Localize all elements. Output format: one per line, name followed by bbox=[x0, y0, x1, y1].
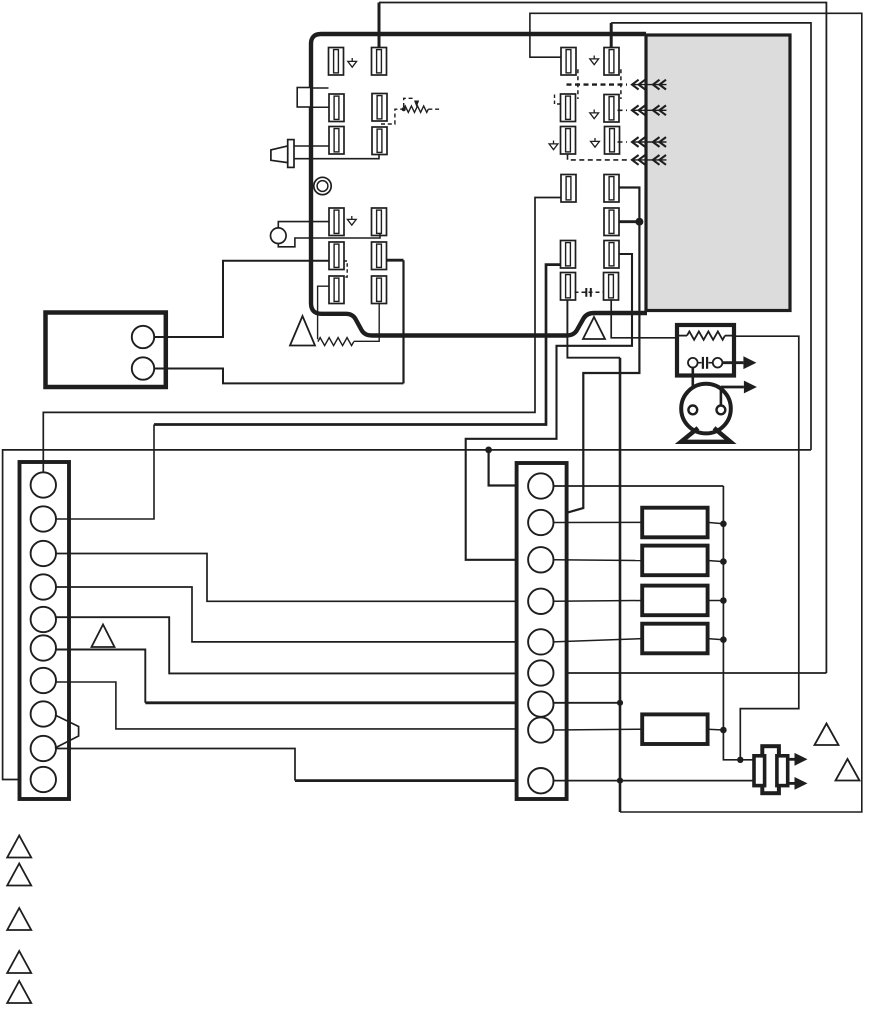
wire TB2 to relay K2 bbox=[553, 559, 642, 562]
wire riser x403 bbox=[402, 260, 404, 383]
terminal MR-R1C1 bbox=[561, 175, 576, 203]
wire to ML-R2C2 bbox=[386, 259, 404, 262]
wire relay K1 to bus bbox=[708, 522, 724, 523]
TB2 screw 9 bbox=[528, 768, 553, 793]
wire TB2 to relay K3 bbox=[553, 600, 642, 603]
TB2 screw 2 bbox=[528, 510, 553, 535]
wire relay K3 to bus bbox=[708, 600, 724, 602]
switch contact right bbox=[713, 358, 723, 368]
element lead right bbox=[725, 335, 734, 337]
motor base bbox=[681, 428, 731, 442]
resistor R-ML bbox=[318, 338, 354, 346]
wire motor terminal up bbox=[720, 387, 723, 406]
polarity mark 6 bbox=[591, 138, 600, 147]
wire bus to TB2-6 bbox=[553, 672, 826, 674]
TB2 screw 6 bbox=[528, 660, 553, 685]
pot junction bbox=[402, 107, 406, 111]
arrow plug lower bbox=[788, 777, 808, 790]
wire relay K5 to bus bbox=[708, 728, 724, 731]
junction relay bus bbox=[720, 521, 727, 528]
dashed link HSI row4 bbox=[568, 155, 628, 160]
wire T2-top to bus bbox=[378, 3, 381, 48]
thermostat terminal W bbox=[132, 357, 154, 379]
chevrons row 4 bbox=[632, 155, 667, 165]
TB2 screw 1 bbox=[528, 473, 553, 498]
wire top bus y2.5 bbox=[379, 3, 826, 674]
wire relay K2 to bus bbox=[708, 561, 724, 562]
wire heater input bbox=[611, 301, 677, 338]
terminal ML-R1C2 bbox=[372, 208, 387, 236]
dashed link HSI row3 bbox=[618, 141, 628, 143]
terminal MR-R1C2 bbox=[604, 175, 619, 203]
TB1 screw 3 bbox=[31, 541, 56, 566]
junction bus y450 bbox=[485, 447, 492, 454]
wire TB2 to relay K1 bbox=[553, 521, 642, 523]
wire thermostat R bbox=[154, 261, 329, 337]
wire TB1-7 to TB2-8 bbox=[56, 682, 529, 729]
motor terminal right bbox=[717, 406, 726, 415]
terminal TR-R1C2 bbox=[604, 48, 619, 76]
wire MR-R2C2 link bbox=[618, 220, 640, 223]
terminal ML-R2C1 bbox=[329, 242, 344, 270]
wire resistor right bbox=[354, 303, 379, 342]
wire y13 net bbox=[530, 13, 862, 812]
terminal TL-R1C2 bbox=[372, 48, 387, 76]
capacitor bar 1 bbox=[585, 288, 587, 297]
switch contact left bbox=[688, 358, 698, 368]
wire switch to motor bbox=[691, 368, 694, 406]
arrow switch output bbox=[722, 356, 756, 369]
terminal TR-R2C1 bbox=[561, 94, 576, 122]
wire TB1-9 net bbox=[56, 749, 295, 781]
junction x620 TB2-9 bbox=[617, 778, 623, 784]
pot element bbox=[404, 106, 429, 112]
wire TB1-1 net bbox=[43, 198, 561, 473]
terminal TR-R2C2 bbox=[604, 95, 619, 123]
capacitor bar 2 bbox=[590, 288, 592, 297]
wire TB1-6 thick bbox=[145, 701, 528, 704]
pot dashed lead bbox=[381, 109, 402, 124]
junction x620 TB2-7 bbox=[617, 700, 623, 706]
wire x620 to terminal bbox=[567, 301, 620, 358]
TB1 screw 8 bbox=[31, 701, 56, 726]
relay K5 bbox=[642, 714, 707, 744]
junction relay bus bbox=[720, 558, 727, 565]
wire TB1-9 thick bbox=[295, 779, 528, 782]
terminal TR-R3C1 bbox=[561, 127, 576, 155]
TB1 screw 10 bbox=[31, 767, 56, 792]
warning triangle 8 bbox=[836, 759, 860, 781]
polarity mark 4 bbox=[590, 110, 599, 119]
terminal MR-R2C2 bbox=[604, 208, 619, 236]
wire stub T-top x611 bbox=[610, 23, 613, 48]
terminal MR-R4C2 bbox=[604, 273, 619, 301]
thermostat terminal R bbox=[132, 326, 154, 348]
wire tab top bbox=[311, 87, 329, 89]
dashed step row2L bbox=[555, 95, 561, 105]
control board outline bbox=[311, 34, 647, 336]
wire tab to R2C1 bbox=[311, 106, 329, 108]
wire TB1-6 to TB2-7 bbox=[56, 650, 146, 703]
mounting hole bbox=[314, 177, 331, 194]
dashed bracket ML bbox=[344, 261, 348, 277]
wire heater output bbox=[734, 336, 799, 760]
terminal ML-R2C2 bbox=[372, 242, 387, 270]
pot wiper arrow bbox=[415, 101, 419, 106]
arrow plug upper bbox=[788, 753, 808, 766]
wire buzzer 1 bbox=[294, 145, 329, 147]
wire TB1-3 to TB2-4 bbox=[56, 554, 529, 602]
note triangle 2 bbox=[7, 864, 31, 886]
warning triangle 2 bbox=[583, 317, 605, 339]
TB2 screw 7 bbox=[528, 691, 553, 716]
wire TB1-2 thick bbox=[154, 265, 561, 425]
wire y22.9 net bbox=[611, 23, 811, 450]
wire TB2-1 to relay bus bbox=[553, 485, 723, 487]
terminal ML-R1C1 bbox=[329, 208, 344, 236]
TB1 screw 5 bbox=[31, 607, 56, 632]
polarity mark 3 bbox=[590, 56, 599, 65]
warning triangle 6 bbox=[92, 625, 115, 648]
wire relay K4 to bus bbox=[708, 639, 724, 640]
pot dashed wiper bbox=[404, 98, 415, 107]
note triangle 3 bbox=[7, 908, 31, 930]
switch bar 1 bbox=[702, 357, 704, 369]
wire TB2-9 to plug bbox=[553, 780, 753, 782]
buzzer cone bbox=[271, 146, 288, 163]
TB1 screw 7 bbox=[31, 668, 56, 693]
junction relay bus bbox=[720, 727, 727, 734]
igniter/HSI block (shaded) bbox=[646, 35, 790, 311]
polarity mark 5 bbox=[549, 141, 558, 150]
wire TB2 to relay K4 bbox=[553, 639, 642, 642]
terminal TL-R2C2 bbox=[372, 94, 387, 122]
pot dashed out bbox=[428, 108, 440, 110]
chevrons row 3 bbox=[632, 137, 667, 147]
wire thermostat W bbox=[154, 369, 403, 384]
TB1 screw 6 bbox=[31, 635, 56, 660]
terminal TL-R3C1 bbox=[329, 127, 344, 155]
polarity mark 1 bbox=[348, 58, 357, 67]
switch stub right bbox=[708, 362, 712, 364]
TB2 screw 5 bbox=[528, 629, 553, 654]
terminal TL-R2C1 bbox=[329, 94, 344, 122]
note triangle 1 bbox=[7, 836, 31, 858]
dashed link HSI row1 bbox=[567, 83, 628, 85]
terminal strip TB2 bbox=[517, 463, 567, 799]
plug wing right bbox=[777, 756, 788, 786]
wire pad bottom bbox=[278, 234, 380, 247]
heating element R-limit bbox=[687, 331, 725, 339]
jumper TB1 8-9 bbox=[55, 715, 79, 748]
dashed capacitor MR-R4 bbox=[575, 291, 604, 293]
terminal MR-R3C2 bbox=[604, 241, 619, 269]
TB2 screw 4 bbox=[528, 589, 553, 614]
plug body bbox=[762, 746, 779, 793]
wire buzzer 2 bbox=[294, 155, 379, 159]
wire TB2-7 stub bbox=[553, 702, 620, 704]
terminal TR-R3C2 bbox=[605, 127, 620, 155]
switch stub left bbox=[698, 362, 702, 364]
edge tab bbox=[297, 88, 311, 108]
dashed link HSI row2 bbox=[618, 109, 628, 111]
TB1 screw 1 bbox=[31, 472, 56, 497]
wire MR-R3C2 net bbox=[466, 254, 632, 560]
chevrons row 1 bbox=[632, 80, 667, 90]
wire TB1-2 net bbox=[56, 425, 154, 520]
relay bus vertical bbox=[722, 486, 724, 730]
thermostat box bbox=[46, 313, 166, 388]
warning triangle 1 bbox=[290, 316, 315, 346]
wire riser x620 bbox=[619, 358, 622, 812]
TB2 screw 3 bbox=[528, 547, 553, 572]
polarity mark 2 bbox=[347, 216, 356, 225]
element lead left bbox=[677, 335, 687, 337]
wire MR-R1C2 net bbox=[552, 188, 639, 518]
relay K3 bbox=[642, 586, 707, 616]
terminal strip TB1 bbox=[20, 462, 70, 799]
relay K4 bbox=[642, 624, 707, 654]
terminal TL-R3C2 bbox=[372, 127, 387, 155]
junction plug feed bbox=[737, 757, 743, 763]
warning triangle 7 bbox=[815, 724, 839, 746]
terminal MR-R3C1 bbox=[561, 241, 576, 269]
terminal TR-R1C1 bbox=[561, 48, 576, 76]
buzzer bar bbox=[288, 140, 294, 168]
plug wing left bbox=[754, 756, 765, 786]
terminal ML-R3C1 bbox=[329, 276, 344, 304]
limit box L1 bbox=[677, 325, 734, 376]
wire junction to TB2-1 bbox=[489, 450, 529, 486]
motor M1 bbox=[681, 384, 731, 434]
terminal ML-R3C2 bbox=[372, 276, 387, 304]
motor terminal left bbox=[688, 406, 697, 415]
junction MR net bbox=[635, 218, 643, 226]
wire TB2 to relay K5 bbox=[553, 728, 642, 731]
pad P1 bbox=[271, 228, 287, 244]
chevrons row 2 bbox=[632, 105, 667, 115]
TB1 screw 2 bbox=[31, 506, 56, 531]
junction relay bus bbox=[720, 597, 727, 604]
junction relay bus bbox=[720, 636, 727, 643]
note triangle 4 bbox=[7, 951, 31, 973]
switch bar 2 bbox=[706, 357, 708, 369]
TB1 screw 9 bbox=[31, 736, 56, 761]
dashed drop x621 bbox=[620, 69, 622, 99]
relay K1 bbox=[642, 508, 707, 538]
dashed drop x578 bbox=[577, 69, 579, 99]
wire TB1-4 to TB2-5 bbox=[56, 587, 529, 642]
relay K2 bbox=[642, 546, 707, 576]
arrow motor output bbox=[721, 381, 757, 394]
wire pad top bbox=[278, 222, 329, 228]
wire bus to plug bbox=[723, 730, 753, 760]
wire long bus y450 bbox=[3, 450, 811, 780]
note triangle 5 bbox=[7, 981, 31, 1003]
TB2 screw 8 bbox=[528, 717, 553, 742]
terminal TL-R1C1 bbox=[329, 48, 344, 76]
wire TB1-5 to TB2-6 bbox=[56, 617, 529, 673]
terminal MR-R4C1 bbox=[561, 273, 576, 301]
TB1 screw 4 bbox=[31, 574, 56, 599]
wire resistor left bbox=[318, 286, 329, 339]
